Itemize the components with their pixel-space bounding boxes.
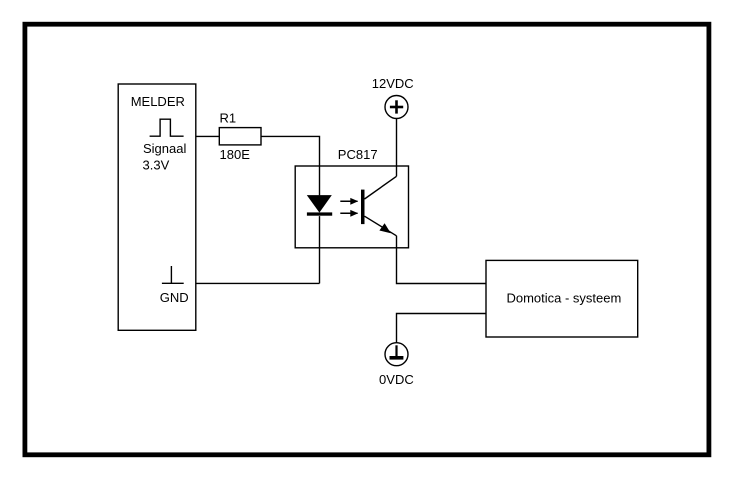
- wire R1 to LED anode: [261, 136, 320, 166]
- svg-text:Signaal: Signaal: [143, 141, 186, 156]
- optocoupler U1 PC817: [295, 147, 408, 248]
- ground 0VDC: [379, 343, 414, 387]
- svg-text:Domotica - systeem: Domotica - systeem: [506, 290, 621, 305]
- svg-text:GND: GND: [160, 290, 189, 305]
- light arrow 1: [340, 198, 358, 205]
- wire GND MELDER to LED cathode: [196, 282, 320, 284]
- wire emitter to Domotica: [397, 236, 487, 284]
- svg-text:PC817: PC817: [338, 147, 378, 162]
- wire Domotica to 0VDC: [397, 314, 487, 343]
- wire 12VDC to collector: [396, 119, 398, 177]
- LED D1: [307, 195, 332, 216]
- value label 180E: [220, 147, 251, 162]
- resistor R1: [219, 110, 261, 144]
- svg-text:0VDC: 0VDC: [379, 372, 414, 387]
- svg-text:180E: 180E: [220, 147, 251, 162]
- block MELDER: [118, 84, 196, 330]
- light arrow 2: [340, 210, 358, 217]
- pulse signal symbol: [150, 119, 184, 136]
- phototransistor Q1: [361, 176, 397, 236]
- ground symbol GND: [160, 266, 189, 305]
- LED anode wire inside optocoupler: [319, 166, 321, 195]
- power source 12VDC: [372, 76, 414, 119]
- block Domotica systeem: [486, 260, 638, 337]
- svg-text:MELDER: MELDER: [131, 94, 185, 109]
- svg-text:12VDC: 12VDC: [372, 76, 414, 91]
- wire LED cathode down: [319, 216, 321, 283]
- svg-text:R1: R1: [220, 110, 237, 125]
- wire signal MELDER to R1: [196, 135, 220, 137]
- svg-text:3.3V: 3.3V: [143, 158, 170, 173]
- label Signaal 3.3V: [143, 141, 187, 173]
